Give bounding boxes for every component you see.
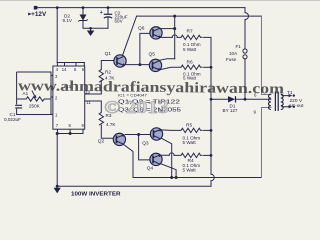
junction rail / IC supply drop <box>56 6 59 9</box>
junction R6 / emitter bus <box>210 66 213 69</box>
pin stubs to IC <box>51 76 53 98</box>
wire D1 row to transformer <box>211 98 271 100</box>
svg-text:5 Watt: 5 Watt <box>183 140 197 145</box>
transistor Q5 <box>149 52 162 72</box>
resistor R7 <box>181 29 203 52</box>
svg-text:250K: 250K <box>29 104 41 109</box>
junction ground rail / ground symbol <box>56 185 59 188</box>
svg-text:Fuse: Fuse <box>226 57 237 62</box>
wire Q2 emitter to Q3 base <box>125 134 150 136</box>
resistor R2 <box>99 70 115 83</box>
wire Q6 emitter to R7 with hop <box>160 36 181 38</box>
wire pin11 to R3 top <box>85 101 102 113</box>
transistor Q1 <box>105 51 127 67</box>
svg-text:Q1: Q1 <box>105 51 112 57</box>
core <box>275 92 278 112</box>
svg-text:Q6: Q6 <box>138 26 145 32</box>
svg-text:100W INVERTER: 100W INVERTER <box>71 192 121 198</box>
svg-text:T1: T1 <box>287 90 293 96</box>
wire C2 branch vertical top <box>107 8 109 14</box>
junction fuse / D1 wire <box>244 98 247 101</box>
wire emitter/ground bus vertical <box>210 67 212 186</box>
fuse F1 <box>226 44 247 62</box>
legend component list <box>118 93 181 113</box>
transistor Q6 <box>138 26 162 40</box>
wire IC bottom pin bus <box>57 133 83 135</box>
junction IC pin 8 / bottom bus <box>69 132 72 135</box>
wire Q6 collector stub <box>160 28 174 30</box>
wire Q6/Q5 collector vertical <box>174 16 176 59</box>
wire pin ticks top <box>57 63 84 67</box>
wire R5 right to bus <box>204 129 211 131</box>
wire base drop to Q6 <box>140 33 150 64</box>
wire ground link horizontal under D2/C2 <box>83 27 108 29</box>
svg-text:4.7K: 4.7K <box>106 122 116 127</box>
wire R6 right to bus <box>204 66 211 68</box>
svg-text:11: 11 <box>86 100 91 105</box>
op IC1 CD4047 box <box>51 66 91 129</box>
wire R7 right to bus <box>204 37 211 67</box>
capacitor C2 <box>100 10 128 23</box>
transformer labels <box>254 90 305 114</box>
wire D2 branch vertical <box>82 8 84 29</box>
junction IC pin 7 / ground drop <box>56 132 59 135</box>
svg-text:© 2013: © 2013 <box>104 97 169 117</box>
svg-text:10A: 10A <box>229 51 238 56</box>
svg-text:Q3: Q3 <box>142 140 149 146</box>
resistor R3 <box>99 113 116 128</box>
wire R4 right to bus <box>204 154 211 156</box>
junction rail / C2 <box>107 6 110 9</box>
svg-text:www.ahmadrafiansyahirawan.com: www.ahmadrafiansyahirawan.com <box>18 78 285 97</box>
svg-text:5 Watt: 5 Watt <box>183 168 197 173</box>
svg-text:5 Watt: 5 Watt <box>183 47 197 52</box>
wire Q2 collector down <box>123 144 133 177</box>
resistor R4 <box>181 153 203 172</box>
junction R4 / emitter bus <box>210 154 213 157</box>
resistor R5 <box>181 123 203 146</box>
wire bottom tap: right vertical lower <box>262 108 271 178</box>
wire +12V rail <box>35 7 245 9</box>
svg-text:R2: R2 <box>105 70 111 75</box>
svg-text:R7: R7 <box>187 29 193 35</box>
wire Q5 emitter to R6 <box>160 67 181 69</box>
wire Q3 emitter to R5 <box>161 129 181 132</box>
output terminals <box>289 94 295 109</box>
junction Q1 emitter / base bus <box>138 63 141 66</box>
junction Q2 emitter / base bus <box>137 133 140 136</box>
gray transformer loop wires <box>262 16 271 177</box>
primary winding <box>268 94 270 109</box>
resistor R6 <box>181 59 203 80</box>
svg-text:50V: 50V <box>115 18 124 23</box>
svg-text:+: + <box>100 10 103 16</box>
svg-text:9.1V: 9.1V <box>63 18 73 23</box>
svg-text:AC-out: AC-out <box>289 103 305 109</box>
svg-text:Q4: Q4 <box>147 166 154 172</box>
wire Q1 collector diagonal <box>122 16 136 56</box>
junction D1 / emitter bus <box>210 98 213 101</box>
transformer T1 <box>268 92 288 112</box>
oscillator block box <box>17 72 53 115</box>
wire bottom tap horizontal <box>133 177 262 179</box>
hop of fuse wire over collector bus <box>245 13 249 20</box>
hop of ground bus over bottom tap wire <box>211 174 214 181</box>
wire IC top pin bus <box>57 62 84 64</box>
wire ground rail bottom <box>57 185 211 187</box>
junction collector bus / Q5-Q6 drop <box>173 15 176 18</box>
junction Q6 collector <box>173 27 176 30</box>
svg-text:Q2: Q2 <box>98 138 105 144</box>
ground (near D2/C2) <box>87 31 95 37</box>
wire C2 branch vertical bottom <box>107 18 109 28</box>
potentiometer arrow A1 <box>23 91 41 109</box>
junction Q4 collector / bottom tap wire <box>175 176 178 179</box>
diode D1 BY127 <box>223 96 238 113</box>
wire ground stem under link <box>90 28 92 30</box>
wire pin ticks bottom <box>57 129 83 133</box>
junction rail / D2 <box>82 6 85 9</box>
ground (main) <box>54 188 61 194</box>
wire pin10 to R2 bottom <box>85 80 102 94</box>
wire ground drop from IC bus <box>56 134 58 187</box>
svg-text:R6: R6 <box>187 59 193 65</box>
+12V terminal <box>28 6 47 18</box>
wire base drop to Q4 <box>139 135 150 160</box>
wire Q4 emitter to R4 with hop <box>161 154 181 156</box>
wire Q5 collector stub <box>160 59 175 60</box>
wire R2 top to Q1 base <box>101 61 114 70</box>
wire Q3 collector down <box>161 138 171 177</box>
junction R5 / emitter bus <box>210 129 213 132</box>
svg-text:R5: R5 <box>186 123 192 129</box>
svg-text:0,022uF: 0,022uF <box>4 117 21 122</box>
transistor Q3 <box>142 128 162 146</box>
svg-text:14: 14 <box>62 67 67 72</box>
wire Q1 emitter to Q5 base <box>126 64 150 66</box>
secondary leads <box>282 96 289 107</box>
svg-text:F1: F1 <box>236 44 242 49</box>
pin 1 stub <box>51 114 53 116</box>
svg-text:+12V: +12V <box>31 11 47 18</box>
R1 row <box>17 97 51 101</box>
junction ground link / D2-C2 <box>89 27 92 30</box>
wire R3 bottom to Q2 base <box>101 125 113 138</box>
watermark www.ahmadrafiansyahirawan.com <box>18 78 285 97</box>
wire collector bus top horizontal <box>137 15 262 17</box>
capacitor C1 <box>4 105 22 122</box>
transistor Q4 <box>147 153 162 171</box>
transistor Q2 <box>98 133 126 145</box>
junction Q3 collector / bottom tap wire <box>170 176 173 179</box>
top edge artifact line <box>0 0 320 2</box>
wire fuse vertical <box>244 8 246 100</box>
wire Q4 collector down <box>161 164 176 178</box>
svg-text:BY 127: BY 127 <box>223 108 238 113</box>
wire top tap: right vertical upper <box>262 16 271 94</box>
wire rail drop to IC top bus <box>56 8 58 63</box>
secondary winding <box>281 94 283 109</box>
svg-text:Q5: Q5 <box>149 52 156 58</box>
diode D2 (zener 9.1V) <box>63 14 88 24</box>
